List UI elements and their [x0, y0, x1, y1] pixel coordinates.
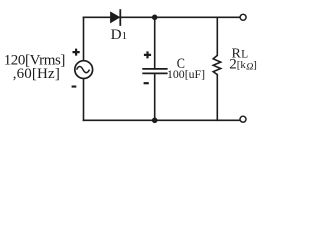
capacitor C bottom plate	[142, 72, 167, 74]
AC source sine wave	[77, 67, 90, 73]
wire resistor branch lower	[216, 75, 218, 121]
wire capacitor branch lower	[154, 73, 156, 120]
wire capacitor branch upper	[154, 17, 156, 69]
svg-text:100[uF]: 100[uF]	[167, 67, 205, 81]
svg-text:,60[Hz]: ,60[Hz]	[13, 66, 60, 82]
wire resistor branch upper	[216, 17, 218, 55]
svg-text:2[kΩ]: 2[kΩ]	[229, 57, 257, 73]
resistor RL zigzag	[213, 55, 221, 74]
junction dot bottom (capacitor node)	[152, 118, 158, 124]
capacitor minus sign	[144, 82, 149, 84]
AC source V1 circle	[75, 61, 93, 79]
source plus sign	[73, 49, 80, 56]
junction dot top (capacitor node)	[152, 14, 158, 20]
wire bottom (source to bottom output terminal)	[84, 119, 240, 121]
capacitor plus sign	[144, 51, 151, 58]
diode D1 cathode bar	[119, 9, 121, 26]
wire left vertical upper (source + to top wire)	[83, 17, 85, 60]
wire left vertical lower (source - to bottom wire)	[83, 79, 85, 120]
diode D1 triangle (anode)	[111, 12, 120, 22]
output terminal top-right (open circle)	[240, 14, 246, 20]
svg-text:D1: D1	[111, 26, 127, 43]
output terminal bottom-right (open circle)	[240, 116, 246, 122]
wire top-left segment (source to diode anode)	[84, 16, 111, 18]
capacitor C top plate	[142, 68, 167, 70]
wire top-right segment (diode cathode to output terminal)	[120, 16, 240, 18]
source minus sign	[72, 86, 77, 88]
